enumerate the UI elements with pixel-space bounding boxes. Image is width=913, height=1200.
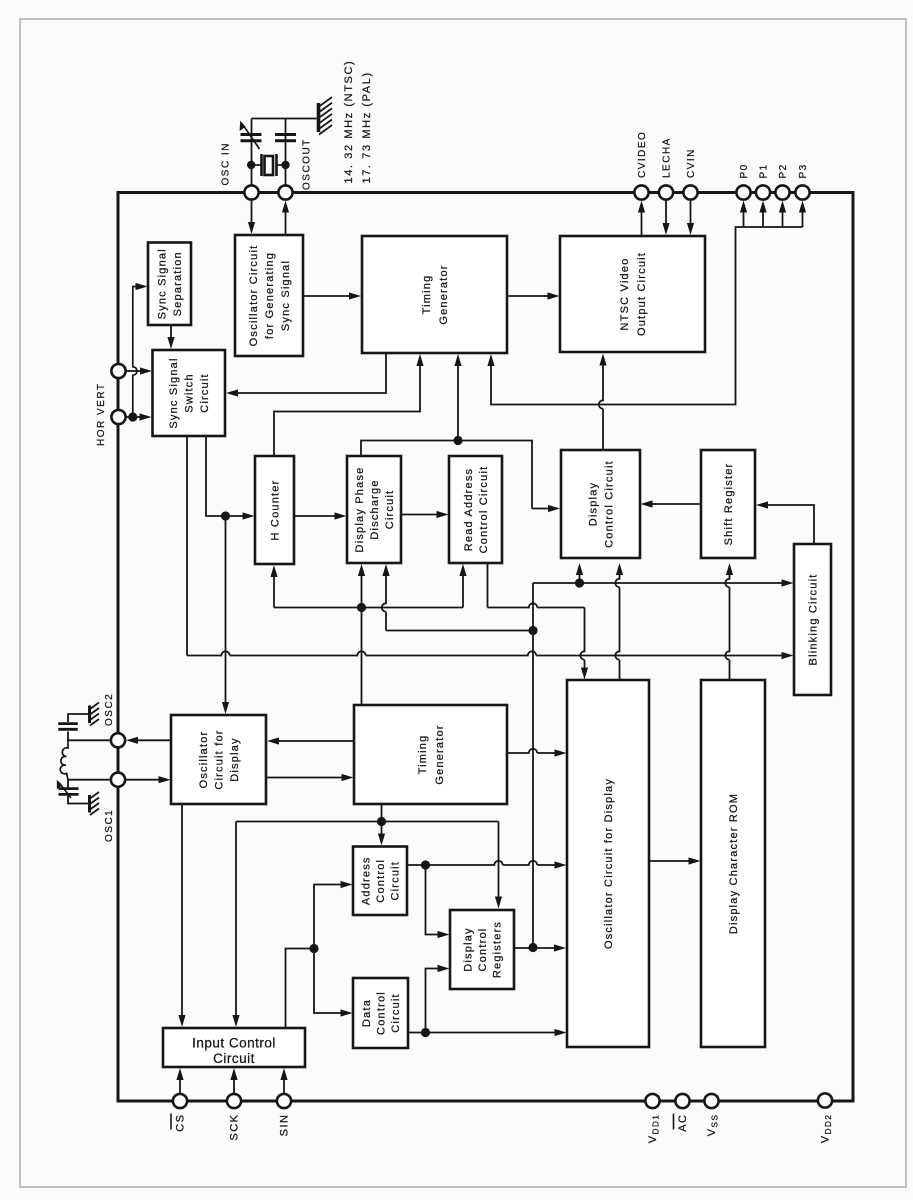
arrowhead into display phase discharge bottom	[382, 564, 389, 576]
pin OSCOUT	[278, 185, 292, 199]
block Sync Signal Separation	[148, 243, 191, 326]
pin HOR	[111, 410, 125, 424]
label OSC IN	[221, 142, 232, 185]
wire OSC IN to osc-gen-sync	[251, 200, 253, 224]
wire timing generator 2 to display phase discharge	[361, 575, 363, 705]
pin LECHA	[659, 185, 673, 199]
wire timing generator to sync switch	[237, 353, 386, 393]
wire bus to P0	[743, 212, 745, 228]
svg-text:AddressControlCircuit: AddressControlCircuit	[360, 856, 401, 905]
wire net to display control circuit	[532, 508, 549, 510]
svg-text:DisplayControlRegisters: DisplayControlRegisters	[462, 921, 503, 978]
IC boundary box	[118, 193, 853, 1102]
wire read address bottom stub	[487, 563, 489, 608]
svg-text:VDD1: VDD1	[647, 1114, 661, 1144]
arrowhead into shift register bottom	[726, 563, 733, 575]
block Timing Generator (display)	[354, 705, 507, 804]
junction HOR branch	[128, 412, 137, 421]
capacitor C2 plates	[275, 135, 296, 141]
svg-text:OSC2: OSC2	[104, 693, 115, 726]
wire line D to blinking circuit	[533, 582, 783, 584]
svg-text:Circuit: Circuit	[213, 1051, 255, 1066]
junction display-phase/TG1/DCC net	[453, 436, 462, 445]
junction line D / DCC branch	[575, 578, 584, 587]
junction crystal left	[247, 161, 255, 169]
junction crystal right	[281, 161, 289, 169]
pin SCK	[227, 1094, 241, 1108]
wire CVIN to NTSC video	[690, 200, 692, 225]
label LECHA	[662, 137, 673, 178]
junction line A x display-phase vertical	[357, 603, 366, 612]
wire SCK to input control	[233, 1079, 235, 1095]
label OSC1	[104, 809, 115, 842]
svg-text:AC: AC	[677, 1114, 689, 1132]
variable capacitor C1 plates	[241, 135, 262, 141]
block H Counter	[255, 456, 294, 564]
wire address control to oscillator-display	[407, 861, 555, 865]
label OSCOUT	[302, 138, 313, 190]
arrowhead data control into oscillator-display	[555, 1029, 567, 1036]
wire timing generator 2 to oscillator-display	[507, 749, 555, 753]
pin P0	[736, 185, 750, 199]
block NTSC Video Output Circuit	[560, 236, 705, 352]
capacitor C3 plates	[58, 724, 78, 730]
svg-text:LECHA: LECHA	[662, 137, 673, 178]
pin OSC2	[111, 733, 125, 747]
wire read address to oscillator-display (vertical)	[580, 608, 584, 671]
junction sync switch distribution	[221, 511, 230, 520]
svg-text:P1: P1	[759, 163, 770, 178]
wire bus to P3	[802, 212, 804, 228]
wire HOR to sync switch	[125, 416, 140, 418]
svg-text:OSC1: OSC1	[104, 809, 115, 842]
block Display Control Circuit	[561, 450, 640, 558]
wire HOR to sync separation	[133, 287, 140, 418]
wire H counter to display phase discharge	[294, 515, 336, 517]
label P3	[798, 163, 809, 178]
wire C3 to ground	[68, 714, 88, 722]
label P2	[778, 163, 789, 178]
svg-text:P3: P3	[798, 163, 809, 178]
wire display control to NTSC video (vertical)	[599, 362, 603, 450]
pin CS	[173, 1094, 187, 1108]
block Oscillator Circuit for Generating Sync Signal	[235, 235, 303, 356]
wire sync switch down leg A	[186, 436, 188, 656]
label OSC2	[104, 693, 115, 726]
ground G2 (OSC2)	[90, 703, 100, 726]
block Oscillator Circuit for Display (analog)	[171, 715, 266, 804]
ground G3 (OSC1)	[90, 792, 100, 815]
wire sync switch to blinking circuit (line C)	[187, 651, 783, 655]
svg-text:Display Character ROM: Display Character ROM	[728, 793, 740, 934]
wire timing generator to NTSC video	[507, 295, 549, 297]
wire shift register to display control circuit	[652, 503, 702, 505]
wire line B to display phase discharge (vertical)	[382, 573, 386, 631]
wire sync switch down leg B	[206, 436, 221, 516]
label 14.32 MHz (NTSC)	[343, 60, 355, 184]
block Data Control Circuit	[353, 978, 408, 1048]
svg-text:CS: CS	[175, 1114, 187, 1132]
wire blinking circuit to shift register	[767, 505, 814, 544]
wire bus to P1	[762, 212, 764, 228]
wire top to ground	[252, 118, 317, 120]
arrowhead line D into blinking circuit	[782, 579, 794, 586]
wire VERT to sync switch	[125, 370, 141, 372]
wire bus to P2	[782, 212, 784, 228]
arrowhead into oscillator circuit for display top	[581, 668, 588, 680]
svg-text:P2: P2	[778, 163, 789, 178]
block Display Control Registers	[450, 910, 514, 989]
wire line A horizontal	[274, 607, 463, 609]
label CS	[171, 1114, 187, 1132]
svg-text:Oscillator Circuit for Disp: Oscillator Circuit for Display	[603, 778, 615, 949]
arrowhead line C into blinking circuit	[782, 652, 794, 659]
wire line A to read address control bottom	[462, 575, 464, 608]
wire P bus to timing generator	[491, 227, 803, 405]
block Oscillator Circuit for Display (tall)	[567, 680, 649, 1047]
crystal X1	[251, 154, 286, 176]
wire osc-gen-sync to OSCOUT	[285, 212, 287, 236]
svg-text:17. 73 MHz (PAL): 17. 73 MHz (PAL)	[361, 71, 373, 183]
block Display Character ROM	[701, 680, 765, 1047]
arrowhead TG2 into oscillator-display	[555, 749, 567, 756]
svg-text:HOR VERT: HOR VERT	[96, 383, 107, 447]
label HOR VERT	[96, 383, 107, 447]
svg-text:OscillatorCircuit forDisplay: OscillatorCircuit forDisplay	[198, 729, 241, 789]
label P1	[759, 163, 770, 178]
junction input control net	[309, 944, 318, 953]
variable capacitor C4 arrow	[59, 783, 71, 799]
variable capacitor C4 plates	[59, 789, 79, 795]
wire TG2 net horizontal	[236, 821, 499, 823]
wire OSC1 to oscillator-display(small)	[125, 779, 159, 781]
svg-text:Shift Register: Shift Register	[723, 463, 735, 546]
wire OSCOUT external branch	[285, 119, 287, 187]
wire ACC to display control registers	[426, 865, 439, 935]
pin CVIN	[683, 185, 697, 199]
ground G1 (top)	[319, 97, 333, 134]
pin VDD1	[645, 1094, 659, 1108]
wire input control to data control	[314, 949, 342, 1014]
wire input control up leg	[286, 949, 315, 1029]
block Display Phase Discharge Circuit	[347, 456, 401, 563]
pin VDD2	[818, 1093, 832, 1107]
wire oscillator-display(small) to timing generator 2	[266, 777, 343, 779]
pin VSS	[704, 1094, 718, 1108]
wire data control to oscillator-display	[408, 1032, 555, 1034]
svg-text:VSS: VSS	[706, 1114, 720, 1137]
block Timing Generator (sync)	[362, 236, 507, 353]
wire data control to display control registers	[426, 969, 439, 1033]
junction line B x533	[528, 626, 537, 635]
arrowhead into display control circuit bottom	[616, 563, 623, 575]
wire OSC1 external	[68, 780, 111, 789]
svg-text:Input Control: Input Control	[192, 1036, 276, 1051]
wire osc-gen-sync to timing generator	[303, 295, 350, 297]
block Input Control Circuit	[163, 1028, 305, 1067]
wire line B horizontal	[386, 630, 533, 632]
arrowhead ACC into oscillator-display	[555, 861, 567, 868]
label 17.73 MHz (PAL)	[361, 71, 373, 183]
pin P1	[756, 185, 770, 199]
pin OSC IN	[244, 185, 258, 199]
inductor L1	[60, 740, 68, 779]
block Shift Register	[701, 450, 755, 558]
wire TG2 net to input control	[235, 822, 237, 1017]
wire oscillator-display to display control circuit	[615, 573, 619, 680]
wire oscillator-display(small) to input control	[181, 804, 183, 1016]
wire NTSC video to CVIDEO	[641, 212, 643, 237]
wire vertical x533	[532, 583, 534, 948]
svg-text:OSCOUT: OSCOUT	[302, 138, 313, 190]
wire oscillator-display(small) to OSC2	[137, 739, 171, 741]
junction TG2 net	[377, 817, 386, 826]
wire input control to address control	[314, 885, 342, 949]
label CVIN	[686, 148, 697, 178]
pin CVIDEO	[634, 185, 648, 199]
svg-text:VDD2: VDD2	[820, 1114, 834, 1144]
pin P3	[795, 185, 809, 199]
svg-text:Blinking Circuit: Blinking Circuit	[807, 574, 819, 666]
junction x533 display control registers	[528, 943, 537, 952]
wire timing generator 2 to address control	[381, 804, 383, 835]
junction data control output	[421, 1028, 430, 1037]
wire line A to H counter bottom	[273, 576, 275, 608]
svg-text:SCK: SCK	[229, 1114, 241, 1141]
block Blinking Circuit	[794, 544, 831, 695]
wire H counter to timing generator	[274, 365, 420, 456]
pin AC	[675, 1094, 689, 1108]
wire TG2 net to display control registers	[498, 822, 500, 898]
wire LECHA to NTSC video	[665, 200, 667, 225]
svg-text:CVIN: CVIN	[686, 148, 697, 178]
wire line D to display control circuit	[579, 574, 581, 583]
svg-text:OSC IN: OSC IN	[221, 142, 232, 185]
pin VERT	[111, 364, 125, 378]
svg-text:Oscillator Circuitfor Generati: Oscillator Circuitfor GeneratingSync Sig…	[248, 245, 292, 347]
block Address Control Circuit	[353, 847, 407, 916]
label VDD1	[647, 1114, 661, 1144]
label AC	[674, 1114, 690, 1132]
wire junction to H counter	[226, 515, 244, 517]
block Read Address Control Circuit	[449, 456, 502, 563]
wire junction to oscillator circuit for display	[225, 516, 227, 703]
wire CS to input control	[179, 1079, 181, 1095]
pin P2	[775, 185, 789, 199]
wire OSC IN external branch	[251, 119, 253, 187]
arrowhead into NTSC video bottom	[599, 354, 606, 366]
label SCK	[229, 1114, 241, 1141]
svg-text:CVIDEO: CVIDEO	[637, 131, 648, 178]
svg-text:14. 32 MHz (NTSC): 14. 32 MHz (NTSC)	[343, 60, 355, 184]
wire display control registers output	[514, 947, 533, 949]
label CVIDEO	[637, 131, 648, 178]
block Sync Signal Switch Circuit	[153, 350, 226, 436]
wire C4 to ground	[68, 796, 88, 804]
label VSS	[706, 1114, 720, 1137]
junction ACC output	[421, 860, 430, 869]
wire SIN to input control	[283, 1079, 285, 1095]
wire timing generator 2 to oscillator-display(small)	[278, 740, 354, 742]
variable capacitor C1 arrow	[243, 125, 260, 149]
svg-text:H Counter: H Counter	[269, 480, 281, 541]
svg-text:P0: P0	[739, 163, 750, 178]
wire DCR to oscillator-display	[533, 947, 555, 949]
wire read address to oscillator-display (horizontal)	[488, 603, 585, 607]
wire display phase discharge to read address	[401, 514, 438, 516]
wire sync separation to sync switch	[170, 325, 172, 338]
label SIN	[279, 1114, 291, 1137]
pin OSC1	[111, 773, 125, 787]
pin SIN	[277, 1094, 291, 1108]
wire display phase discharge top net	[361, 441, 532, 509]
wire net to timing generator (bottom)	[457, 365, 459, 441]
label P0	[739, 163, 750, 178]
wire character ROM to shift register	[725, 573, 729, 680]
label VDD2	[820, 1114, 834, 1144]
svg-text:SIN: SIN	[279, 1114, 291, 1137]
wire OSC2 external	[68, 732, 111, 741]
wire oscillator-display to character ROM	[649, 860, 690, 862]
